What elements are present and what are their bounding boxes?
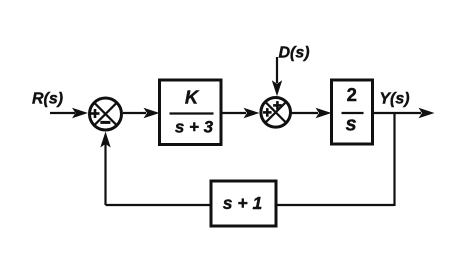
svg-text:K: K (185, 87, 200, 108)
svg-text:Y(s): Y(s) (379, 91, 409, 108)
svg-text:s + 1: s + 1 (223, 193, 262, 213)
svg-text:s + 3: s + 3 (175, 118, 214, 137)
svg-text:R(s): R(s) (32, 91, 63, 108)
svg-text:D(s): D(s) (278, 45, 309, 62)
svg-text:s: s (345, 114, 356, 136)
svg-text:2: 2 (347, 84, 357, 105)
